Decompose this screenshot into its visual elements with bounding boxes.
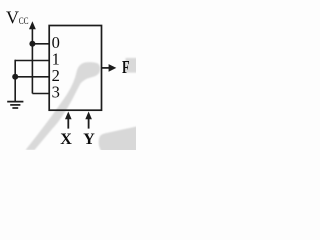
ground symbol: [7, 102, 23, 108]
output arrow head: [109, 64, 117, 72]
wire pin 3: [32, 93, 49, 95]
svg-text:CC: CC: [19, 17, 29, 27]
junction dot: Vcc to pin 0: [29, 41, 35, 47]
select wire Y: [88, 118, 90, 129]
svg-text:V: V: [6, 8, 19, 28]
select arrow X head: [65, 112, 72, 120]
svg-text:F: F: [122, 57, 130, 77]
multiplexer box U1: [49, 26, 101, 111]
select arrow Y head: [85, 112, 92, 120]
watermark block right of F: [126, 58, 139, 73]
wire: Vcc vertical rail: [31, 28, 33, 94]
select wire X: [67, 118, 69, 129]
wire: ground vertical rail: [14, 60, 16, 102]
svg-text:3: 3: [52, 83, 60, 102]
output wire F: [102, 67, 111, 69]
wire pin 1: [15, 60, 49, 62]
svg-text:X: X: [60, 131, 72, 148]
watermark bottom-right wedge: [99, 126, 140, 154]
power Vcc arrow head: [29, 21, 36, 29]
svg-text:Y: Y: [83, 131, 95, 148]
wire pin 2: [15, 76, 49, 78]
wire pin 0: [32, 43, 49, 45]
watermark diagonal band with curled crest: [26, 62, 101, 150]
junction dot: ground to pin 2: [12, 74, 18, 80]
